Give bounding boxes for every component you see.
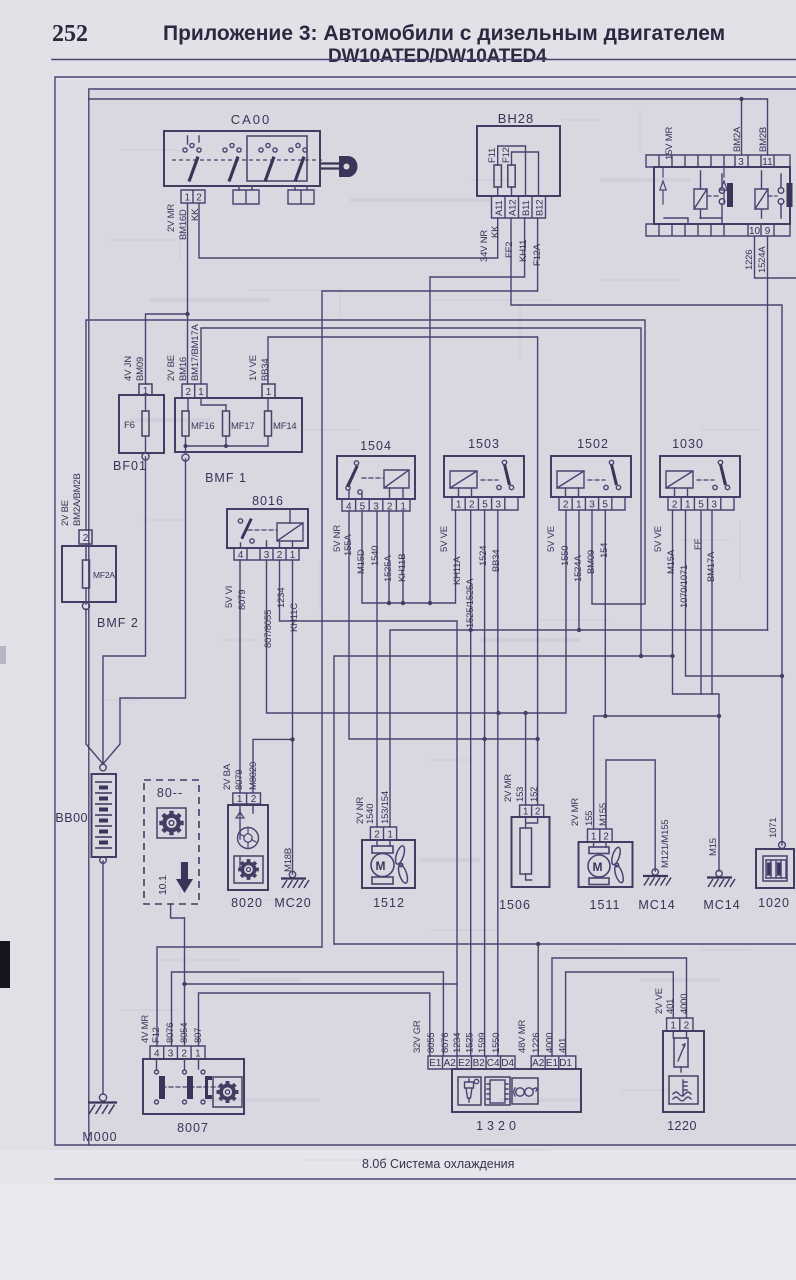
svg-text:KK: KK	[490, 225, 501, 238]
svg-text:1524A: 1524A	[757, 246, 768, 273]
svg-text:32V GR: 32V GR	[412, 1020, 423, 1053]
svg-text:5V VE: 5V VE	[439, 526, 450, 552]
svg-text:252: 252	[52, 21, 88, 47]
svg-text:807/8055: 807/8055	[263, 610, 274, 648]
svg-text:1540: 1540	[370, 546, 381, 566]
svg-text:5: 5	[482, 500, 488, 511]
svg-text:1503: 1503	[468, 437, 500, 451]
svg-text:1234: 1234	[452, 1033, 463, 1053]
svg-text:1: 1	[591, 832, 597, 843]
svg-text:A2: A2	[532, 1058, 545, 1069]
svg-text:KH11: KH11	[518, 240, 529, 262]
svg-text:MF14: MF14	[273, 421, 296, 432]
svg-text:2: 2	[469, 500, 475, 511]
svg-text:BB34: BB34	[260, 359, 271, 381]
svg-text:DW10ATED/DW10ATED4: DW10ATED/DW10ATED4	[328, 46, 547, 67]
svg-text:1502: 1502	[577, 437, 609, 451]
svg-text:F11: F11	[487, 148, 498, 163]
svg-text:MC14: MC14	[703, 898, 740, 912]
svg-text:8007: 8007	[177, 1121, 209, 1135]
svg-text:4V MR: 4V MR	[140, 1015, 151, 1043]
svg-text:1504: 1504	[360, 439, 392, 453]
svg-text:2: 2	[603, 832, 609, 843]
svg-text:4000: 4000	[545, 1033, 556, 1053]
svg-text:1071: 1071	[768, 818, 779, 838]
svg-text:4: 4	[154, 1049, 160, 1060]
svg-text:1320: 1320	[476, 1119, 520, 1133]
svg-text:1: 1	[400, 502, 406, 513]
svg-text:34V NR: 34V NR	[479, 230, 490, 262]
svg-text:5: 5	[698, 500, 704, 511]
svg-text:4V JN: 4V JN	[123, 356, 134, 381]
svg-text:M15A: M15A	[666, 549, 677, 574]
svg-text:KH11B: KH11B	[397, 554, 408, 582]
svg-text:2: 2	[535, 807, 541, 818]
svg-text:4000: 4000	[679, 994, 690, 1014]
svg-text:1550: 1550	[560, 546, 571, 566]
svg-text:2: 2	[374, 830, 380, 841]
svg-text:153: 153	[515, 787, 526, 802]
svg-text:BM09: BM09	[135, 357, 146, 381]
svg-text:1030: 1030	[672, 437, 704, 451]
svg-text:1226: 1226	[744, 250, 755, 270]
svg-text:1524A: 1524A	[573, 555, 584, 582]
svg-text:1220: 1220	[667, 1119, 697, 1133]
svg-text:BM17A: BM17A	[706, 551, 717, 582]
svg-text:1: 1	[237, 794, 243, 805]
svg-text:154: 154	[599, 543, 610, 558]
svg-text:BMF 2: BMF 2	[97, 616, 139, 630]
svg-text:5V VE: 5V VE	[653, 526, 664, 552]
svg-text:152: 152	[529, 787, 540, 802]
svg-text:3: 3	[711, 500, 717, 511]
svg-text:1550: 1550	[491, 1033, 502, 1053]
svg-text:BM09: BM09	[586, 550, 597, 574]
svg-text:1511: 1511	[590, 898, 621, 912]
svg-text:1512: 1512	[373, 896, 405, 910]
svg-text:2V MR: 2V MR	[503, 774, 514, 802]
svg-text:D4: D4	[501, 1058, 514, 1069]
svg-text:BM17/BM17A: BM17/BM17A	[190, 324, 201, 381]
svg-text:E2: E2	[458, 1058, 471, 1069]
svg-text:8020: 8020	[231, 896, 263, 910]
svg-text:8055: 8055	[426, 1033, 437, 1053]
svg-text:1V VE: 1V VE	[248, 355, 259, 381]
svg-text:MF2A: MF2A	[93, 570, 115, 580]
svg-text:3: 3	[495, 500, 501, 511]
svg-text:10.1: 10.1	[157, 875, 169, 895]
svg-text:F12A: F12A	[532, 243, 543, 266]
svg-text:1540: 1540	[365, 804, 376, 824]
svg-text:FF: FF	[693, 538, 704, 550]
svg-text:1: 1	[523, 807, 529, 818]
svg-text:401: 401	[558, 1038, 569, 1053]
svg-text:8.0б Система охлаждения: 8.0б Система охлаждения	[362, 1157, 514, 1171]
svg-text:B12: B12	[535, 200, 546, 216]
svg-text:M000: M000	[82, 1130, 117, 1144]
svg-text:1: 1	[456, 500, 462, 511]
svg-text:2: 2	[186, 387, 192, 398]
svg-text:A11: A11	[494, 200, 505, 216]
svg-text:1226: 1226	[531, 1033, 542, 1053]
svg-text:153/154: 153/154	[380, 791, 391, 824]
svg-text:MC20: MC20	[274, 896, 311, 910]
svg-text:2V MR: 2V MR	[166, 204, 177, 232]
svg-text:M: M	[376, 859, 386, 873]
svg-text:3: 3	[373, 502, 379, 513]
svg-text:F6: F6	[124, 420, 135, 431]
svg-text:M15D: M15D	[356, 549, 367, 574]
svg-text:Приложение 3: Автомобили с диз: Приложение 3: Автомобили с дизельным дви…	[163, 22, 725, 45]
svg-text:E1: E1	[429, 1058, 442, 1069]
svg-text:KK: KK	[190, 208, 201, 221]
svg-text:8079: 8079	[237, 590, 248, 610]
svg-text:2: 2	[277, 550, 283, 561]
svg-text:9: 9	[765, 226, 771, 237]
svg-text:2: 2	[181, 1049, 187, 1060]
svg-text:A2: A2	[444, 1058, 457, 1069]
svg-text:1: 1	[290, 550, 296, 561]
svg-text:48V MR: 48V MR	[517, 1020, 528, 1053]
svg-text:BF01: BF01	[113, 459, 147, 473]
svg-text:2V BA: 2V BA	[222, 763, 233, 790]
svg-text:F12: F12	[501, 147, 512, 163]
svg-text:2V VE: 2V VE	[654, 988, 665, 1014]
svg-text:5V VI: 5V VI	[224, 586, 235, 608]
svg-text:C4: C4	[487, 1058, 500, 1069]
svg-text:1525/1525A: 1525/1525A	[465, 578, 476, 628]
svg-text:155: 155	[584, 811, 595, 826]
svg-text:B2: B2	[473, 1058, 486, 1069]
svg-text:8016: 8016	[252, 494, 284, 508]
svg-text:5V NR: 5V NR	[332, 525, 343, 552]
svg-text:2V BE: 2V BE	[60, 500, 71, 526]
svg-text:80--: 80--	[157, 786, 183, 800]
svg-text:1: 1	[685, 500, 691, 511]
svg-text:5: 5	[602, 500, 608, 511]
svg-text:3: 3	[264, 550, 270, 561]
svg-text:E1: E1	[546, 1058, 559, 1069]
svg-text:2V BE: 2V BE	[166, 355, 177, 381]
svg-text:M121/M155: M121/M155	[660, 820, 671, 868]
svg-text:1: 1	[195, 1049, 201, 1060]
svg-text:M8020: M8020	[248, 762, 259, 790]
svg-text:M155: M155	[598, 803, 609, 826]
svg-text:2V MR: 2V MR	[570, 798, 581, 826]
svg-text:1525A: 1525A	[383, 555, 394, 582]
svg-text:MC14: MC14	[638, 898, 675, 912]
svg-text:2: 2	[387, 502, 393, 513]
svg-text:1599: 1599	[477, 1033, 488, 1053]
svg-text:8079: 8079	[234, 770, 245, 790]
svg-text:M15: M15	[708, 838, 719, 856]
svg-text:FF2: FF2	[504, 242, 515, 258]
svg-text:8076: 8076	[440, 1033, 451, 1053]
svg-text:3: 3	[168, 1049, 174, 1060]
svg-text:401: 401	[665, 999, 676, 1014]
svg-text:1506: 1506	[499, 898, 531, 912]
svg-text:8054: 8054	[179, 1023, 190, 1043]
svg-text:BM16: BM16	[178, 357, 189, 381]
svg-text:BM2A: BM2A	[732, 126, 743, 152]
svg-text:KH11C: KH11C	[289, 603, 300, 632]
svg-text:1234: 1234	[276, 588, 287, 608]
svg-text:155A: 155A	[343, 534, 354, 556]
svg-text:MF16: MF16	[191, 421, 214, 432]
svg-text:2: 2	[251, 794, 257, 805]
svg-text:4: 4	[346, 502, 352, 513]
svg-text:A12: A12	[508, 200, 519, 216]
svg-text:2: 2	[672, 500, 678, 511]
svg-text:1070/1071: 1070/1071	[679, 565, 690, 608]
svg-text:2: 2	[196, 193, 202, 204]
svg-text:BB00: BB00	[55, 811, 88, 825]
svg-text:1: 1	[266, 387, 272, 398]
svg-text:15V MR: 15V MR	[664, 127, 675, 160]
svg-text:B11: B11	[521, 200, 532, 216]
svg-text:5V VE: 5V VE	[546, 526, 557, 552]
svg-text:D1: D1	[559, 1058, 572, 1069]
svg-text:1: 1	[198, 387, 204, 398]
svg-text:M18B: M18B	[283, 848, 294, 872]
svg-text:BM2B: BM2B	[758, 127, 769, 152]
svg-text:2: 2	[83, 533, 89, 544]
svg-text:KH11A: KH11A	[452, 556, 463, 585]
svg-text:CA00: CA00	[231, 112, 272, 127]
svg-text:MF17: MF17	[231, 421, 254, 432]
svg-text:10: 10	[749, 226, 761, 237]
svg-text:807: 807	[193, 1028, 204, 1043]
svg-text:2: 2	[684, 1021, 690, 1032]
svg-text:1020: 1020	[758, 896, 790, 910]
svg-text:5: 5	[360, 502, 366, 513]
svg-text:1: 1	[143, 386, 149, 397]
svg-text:1524: 1524	[478, 546, 489, 566]
svg-text:BM2A/BM2B: BM2A/BM2B	[72, 473, 83, 526]
svg-text:8076: 8076	[165, 1023, 176, 1043]
svg-text:1525: 1525	[465, 1033, 476, 1053]
svg-text:4: 4	[238, 550, 244, 561]
svg-text:BB34: BB34	[491, 550, 502, 572]
svg-text:1: 1	[387, 830, 393, 841]
svg-text:M: M	[593, 860, 603, 874]
svg-text:2: 2	[563, 500, 569, 511]
svg-text:1: 1	[576, 500, 582, 511]
svg-text:BMF 1: BMF 1	[205, 471, 247, 485]
svg-text:1: 1	[185, 193, 191, 204]
svg-text:F12: F12	[151, 1027, 162, 1043]
svg-text:11: 11	[762, 157, 773, 168]
svg-text:BH28: BH28	[498, 111, 535, 126]
svg-text:BM16D: BM16D	[178, 209, 189, 240]
svg-text:3: 3	[738, 157, 744, 168]
svg-text:1: 1	[670, 1021, 676, 1032]
svg-text:3: 3	[589, 500, 595, 511]
